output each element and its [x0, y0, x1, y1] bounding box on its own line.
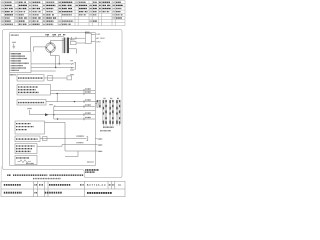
- wire AC line N: [33, 46, 46, 48]
- wire row 144: [62, 144, 95, 146]
- component labels LF1 DB1 T1 C5: [46, 34, 66, 36]
- led box B3: [17, 85, 51, 95]
- title row1 midtext: [49, 184, 71, 186]
- thermal fuse box BD: [15, 156, 37, 165]
- ladder 2 tail: [109, 124, 111, 126]
- wire mid out 2: [54, 106, 96, 108]
- tick arrow 1: [71, 63, 73, 64]
- vent label line2: [85, 171, 95, 173]
- cross mark: [71, 67, 73, 69]
- connector ladder 3: [116, 100, 117, 124]
- junction dot F: [53, 114, 54, 115]
- end connector K4: [67, 76, 72, 80]
- title block grid: [1, 181, 125, 196]
- wire mid out 3: [54, 110, 96, 112]
- bridge rectifier DB1: [46, 41, 56, 56]
- ladder 3 tail: [116, 124, 118, 126]
- wire B3 out 2: [51, 93, 96, 95]
- pin stub SP3: [95, 150, 97, 152]
- wire drop N: [32, 47, 34, 52]
- wire B3 drop: [56, 94, 58, 102]
- wire drop L: [29, 37, 31, 52]
- svg-text:AC 100V: AC 100V: [96, 37, 105, 40]
- corner tick Q1: [54, 105, 55, 106]
- filter box C5: [85, 33, 91, 43]
- wire row 151: [65, 150, 95, 152]
- bridge diode marks: [46, 43, 54, 52]
- parts table grid: [1, 1, 125, 26]
- cluster bottom label 1: [103, 126, 114, 128]
- junction dot C: [74, 101, 75, 102]
- wire drop A: [55, 56, 57, 68]
- cluster bottom label 2: [100, 130, 111, 132]
- wire plus drop: [29, 110, 31, 115]
- junction dot E: [57, 93, 58, 94]
- connector bracket F1: [74, 62, 75, 69]
- relay stubs: [95, 100, 97, 102]
- connector CN32: [77, 135, 85, 137]
- wire secondary top out: [69, 37, 85, 39]
- wire B1 out 3: [31, 70, 56, 72]
- title row1 right cells: [109, 184, 111, 186]
- title row1 cell1: [4, 184, 21, 186]
- wire stub 156: [65, 156, 78, 158]
- wire B1 out 1: [31, 63, 74, 65]
- wire BB out: [40, 138, 87, 140]
- series tick b: [75, 37, 77, 40]
- wire led row: [30, 114, 96, 116]
- ladder 3 top stub: [117, 99, 119, 102]
- ladder 1 tail: [102, 124, 104, 126]
- connector ladder 2: [110, 100, 111, 124]
- connector ladder 1: [103, 100, 104, 124]
- svg-text:BVT736-FC: BVT736-FC: [87, 183, 106, 187]
- wire secondary lower out: [69, 48, 77, 50]
- wire stub riser: [77, 151, 79, 157]
- stub to DP1: [91, 33, 95, 35]
- title row2 cell1: [4, 192, 22, 194]
- zener ZD1: [70, 39, 74, 41]
- pin ticks and labels: [83, 89, 85, 92]
- label ticks: [48, 35, 59, 37]
- ladder 1 top stub: [104, 99, 106, 102]
- wire B3 out 1: [51, 90, 96, 92]
- small connector bars left: [97, 100, 98, 107]
- page left edge stub: [0, 166, 2, 181]
- wire bridge top run: [51, 40, 64, 42]
- wire B4 out: [46, 101, 95, 103]
- micom box B4: [17, 100, 46, 105]
- pin stub SP2: [95, 144, 97, 146]
- series tick a: [71, 37, 73, 40]
- title row2 date: [45, 192, 62, 194]
- inline connector K2: [48, 76, 53, 81]
- plus label: [28, 108, 32, 110]
- wire low out: [54, 118, 96, 120]
- led arrow LED1: [45, 113, 49, 116]
- wire BC rise: [61, 145, 63, 147]
- wire AC line L: [30, 36, 64, 38]
- ladder 2 top stub: [111, 99, 113, 102]
- power cord box B1: [10, 52, 31, 73]
- svg-text:FC: FC: [118, 185, 121, 187]
- main board outline: [10, 33, 96, 166]
- wire zd out: [76, 42, 85, 44]
- wire BA drop: [64, 122, 66, 151]
- inline connector K3: [43, 137, 48, 141]
- wire BA out: [45, 121, 66, 123]
- vent label line1: [85, 169, 99, 171]
- title row1 small cells: [34, 184, 37, 186]
- sensor box BA: [15, 121, 45, 134]
- photo box B2: [17, 75, 44, 81]
- pin stub SP1: [95, 138, 97, 140]
- earth terminal: [12, 44, 15, 49]
- grill box BB: [15, 136, 40, 142]
- sheet border frame: [3, 30, 123, 178]
- parts table text: [2, 2, 123, 24]
- wire B1 out 2: [31, 67, 74, 69]
- body label: [10, 74, 16, 76]
- child lock box BC: [15, 144, 37, 154]
- wire BC out: [37, 145, 62, 147]
- thermal fuse squiggle: [18, 160, 32, 163]
- transformer T1 primary: [64, 38, 66, 54]
- company name: [87, 192, 112, 194]
- wire B2 out: [44, 77, 67, 79]
- transformer core line: [61, 38, 63, 53]
- junction dot G: [57, 118, 58, 119]
- cluster top labels: [104, 97, 106, 99]
- note line 2: [33, 178, 61, 180]
- junction dot A: [55, 67, 56, 68]
- board name label: [11, 34, 19, 36]
- earth label: [13, 41, 17, 43]
- note line 1: [7, 174, 11, 176]
- wire branch vertical: [53, 107, 55, 119]
- board label: [87, 161, 94, 163]
- wire drop B: [58, 56, 60, 64]
- stub to DP2: [91, 40, 95, 42]
- junction dot B: [59, 63, 60, 64]
- transformer T1 secondary: [67, 38, 69, 54]
- wire bridge bottom run: [51, 55, 60, 57]
